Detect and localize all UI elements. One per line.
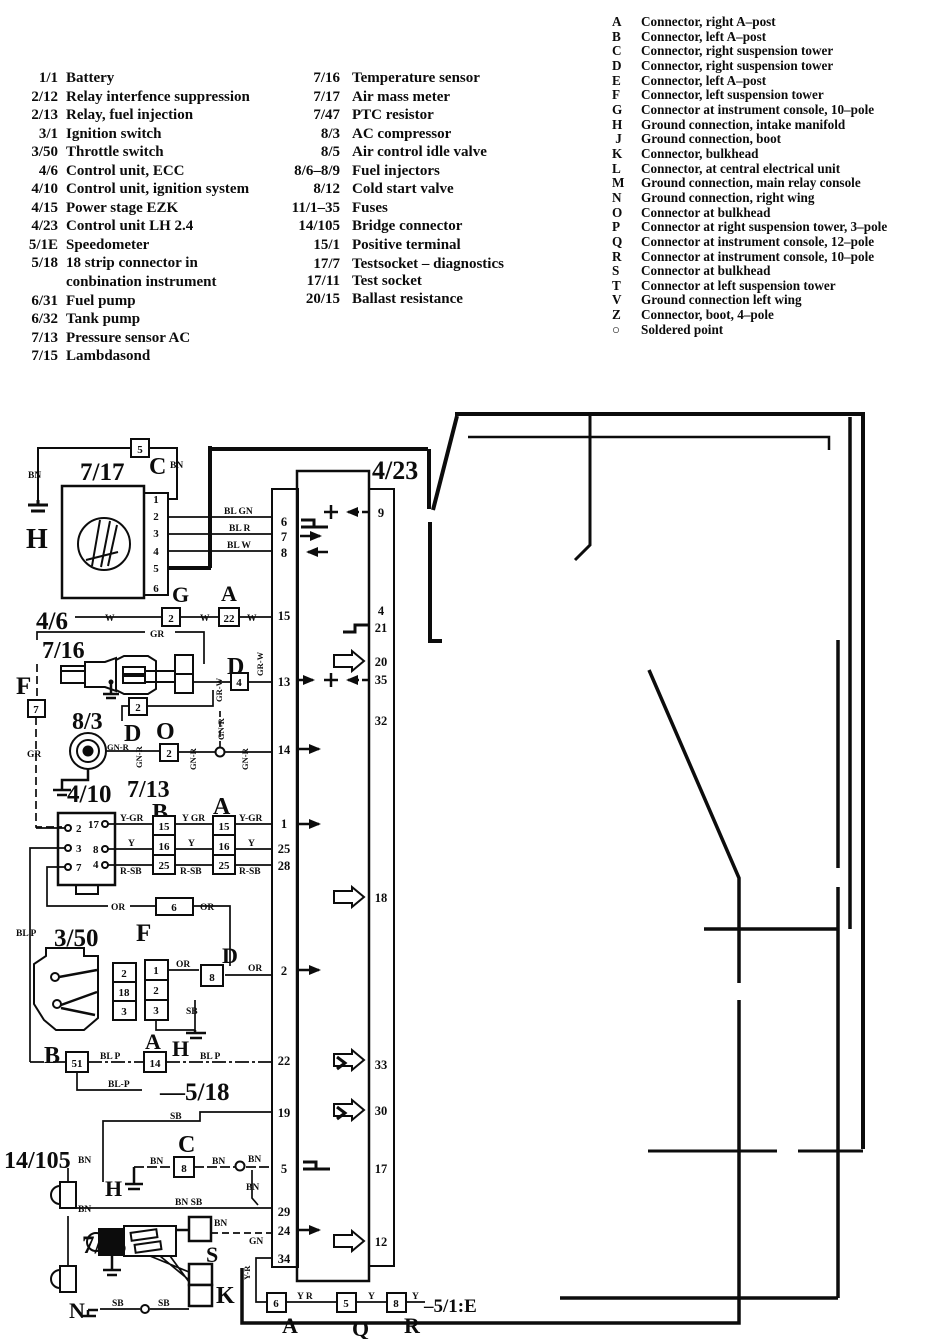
svg-text:OR: OR <box>111 903 125 913</box>
svg-text:4/6: 4/6 <box>36 608 68 635</box>
svg-text:2: 2 <box>281 964 287 978</box>
ground H row <box>125 1167 143 1189</box>
control unit 4/23 main box <box>297 471 369 1281</box>
svg-text:6: 6 <box>273 1298 279 1310</box>
bridge connector 14/105 upper <box>51 1182 76 1208</box>
svg-text:OR: OR <box>176 960 190 970</box>
svg-text:Y-R: Y-R <box>242 1265 252 1280</box>
svg-text:A: A <box>221 581 237 606</box>
svg-text:BL R: BL R <box>229 524 251 534</box>
7/16 right connector boxes <box>175 655 193 674</box>
svg-text:Y-GR: Y-GR <box>120 814 144 824</box>
svg-text:Y: Y <box>412 1292 419 1302</box>
ground under 7/15 <box>103 1256 121 1275</box>
svg-text:Y: Y <box>128 839 135 849</box>
wires 4/10 left pins <box>30 828 108 1062</box>
svg-text:N: N <box>69 1298 85 1323</box>
svg-text:C: C <box>178 1132 195 1158</box>
hollow arrow pin33 <box>334 1050 364 1070</box>
legend middle column names <box>352 69 487 254</box>
svg-text:BN: BN <box>214 1219 227 1229</box>
3/50 pin column 2 <box>145 960 168 1020</box>
svg-text:2: 2 <box>76 823 82 835</box>
svg-text:6: 6 <box>171 902 177 914</box>
wire BL-Y vertical to A9 <box>430 522 442 641</box>
wire BL-Y relay drop <box>575 414 590 560</box>
svg-text:24: 24 <box>278 1224 291 1238</box>
svg-text:4/23: 4/23 <box>372 456 418 485</box>
svg-text:30: 30 <box>375 1104 388 1118</box>
wire BL-P to 5/18 <box>77 1072 142 1090</box>
svg-text:29: 29 <box>278 1205 291 1219</box>
svg-text:GR-W: GR-W <box>255 651 265 676</box>
svg-text:8: 8 <box>209 972 215 984</box>
svg-text:2: 2 <box>168 613 174 625</box>
svg-text:OR: OR <box>200 903 214 913</box>
wire 7/15 to S <box>176 1229 189 1232</box>
legend middle column numbers <box>280 69 340 254</box>
svg-text:7: 7 <box>33 704 39 716</box>
svg-text:Q: Q <box>352 1316 369 1339</box>
svg-text:SB: SB <box>158 1299 170 1309</box>
arrow right pin14 <box>299 748 319 751</box>
S box <box>189 1217 211 1241</box>
soldered point <box>216 748 225 757</box>
legend right column names <box>641 15 887 337</box>
svg-text:F: F <box>16 673 31 700</box>
connector A box 14 <box>144 1052 166 1072</box>
arrow left pin8 <box>308 551 328 554</box>
svg-text:BL P: BL P <box>100 1052 121 1062</box>
arrow plus pin35 <box>299 673 368 687</box>
svg-text:14/105: 14/105 <box>4 1148 71 1174</box>
svg-text:8: 8 <box>181 1163 187 1175</box>
svg-text:GN-R: GN-R <box>134 745 144 768</box>
svg-text:Y R: Y R <box>297 1292 313 1302</box>
wire SB + ground H under 3/50 <box>156 1000 195 1030</box>
wire BL-Y top trunk <box>210 414 863 1149</box>
connector B box 51 <box>66 1052 88 1072</box>
lambda sensor 7/15 <box>87 1233 105 1251</box>
svg-text:Y: Y <box>368 1292 375 1302</box>
svg-text:8/3: 8/3 <box>72 709 103 735</box>
legend left column names <box>66 69 250 366</box>
svg-text:6: 6 <box>153 583 159 595</box>
svg-text:22: 22 <box>224 613 236 625</box>
pressure sensor 4/10 box <box>58 813 115 885</box>
wire BL-W pin4 <box>168 550 272 552</box>
bottom connector row boxes <box>267 1293 286 1312</box>
svg-text:GN: GN <box>249 1237 263 1247</box>
wire rows 4/10 to pins <box>108 824 272 865</box>
ac compressor 8/3 <box>70 733 106 769</box>
svg-text:1: 1 <box>153 494 159 506</box>
svg-text:2: 2 <box>135 702 141 714</box>
wire P long diagonal <box>242 670 739 1323</box>
ground under 8/3 <box>53 769 88 795</box>
connector D box 8 <box>201 965 223 986</box>
wire labels Y-GR rows <box>120 814 263 877</box>
svg-text:Y GR: Y GR <box>182 814 205 824</box>
svg-text:H: H <box>26 524 48 555</box>
svg-text:7/17: 7/17 <box>80 459 124 486</box>
wire C5 right to 7/17 pin1 <box>149 448 177 499</box>
svg-text:OR: OR <box>248 964 262 974</box>
svg-text:BN: BN <box>248 1155 261 1165</box>
hollow arrow pin20 <box>334 651 364 671</box>
svg-text:13: 13 <box>278 675 291 689</box>
wire C5 left to ground H <box>38 448 131 500</box>
svg-text:BN: BN <box>150 1157 163 1167</box>
svg-text:5: 5 <box>153 563 159 575</box>
svg-text:14: 14 <box>278 743 291 757</box>
wires 7/15 to K <box>150 1256 192 1286</box>
svg-text:51: 51 <box>72 1058 83 1070</box>
svg-text:SB: SB <box>186 1007 198 1017</box>
svg-text:9: 9 <box>378 506 384 520</box>
svg-text:8: 8 <box>393 1298 399 1310</box>
svg-text:19: 19 <box>278 1106 291 1120</box>
svg-text:–5/1:E: –5/1:E <box>423 1296 477 1317</box>
svg-text:R-SB: R-SB <box>180 867 202 877</box>
svg-text:3: 3 <box>153 1005 159 1017</box>
svg-text:15: 15 <box>159 821 171 833</box>
wire pin5 to BL-Y <box>168 566 211 570</box>
svg-text:BL P: BL P <box>200 1052 221 1062</box>
connector C box 5 <box>131 439 149 457</box>
svg-text:GR: GR <box>27 750 41 760</box>
svg-text:D: D <box>222 943 238 968</box>
svg-text:K: K <box>216 1283 235 1309</box>
arrow plus pin9 <box>324 505 368 519</box>
svg-text:25: 25 <box>159 860 171 872</box>
svg-text:D: D <box>124 721 141 747</box>
svg-text:BN SB: BN SB <box>175 1198 203 1208</box>
svg-text:5: 5 <box>281 1162 287 1176</box>
svg-text:GR-W: GR-W <box>214 677 224 702</box>
svg-text:5: 5 <box>343 1298 349 1310</box>
connector A box 22 <box>219 608 239 626</box>
svg-text:BL P: BL P <box>16 929 37 939</box>
wire BL-P row to pin22 <box>30 1061 272 1063</box>
svg-text:BL W: BL W <box>227 541 251 551</box>
svg-text:GN-R: GN-R <box>216 717 226 740</box>
svg-text:BN: BN <box>212 1157 225 1167</box>
svg-text:BL GN: BL GN <box>224 507 253 517</box>
svg-text:O: O <box>156 719 175 745</box>
svg-text:15: 15 <box>278 609 291 623</box>
step symbol pin6 <box>301 520 328 527</box>
wire 7/16 to D4 to pin13 <box>193 681 272 683</box>
svg-text:BL-P: BL-P <box>108 1080 130 1090</box>
svg-text:A: A <box>145 1029 161 1054</box>
svg-text:3: 3 <box>76 843 82 855</box>
wire Y-BN trunk <box>468 437 829 450</box>
wire SB soldered SB <box>100 1308 189 1310</box>
svg-text:17: 17 <box>88 819 100 831</box>
svg-text:4: 4 <box>378 604 385 618</box>
svg-text:8: 8 <box>281 546 287 560</box>
svg-text:5: 5 <box>137 444 143 456</box>
wire 4/6 row <box>75 616 272 618</box>
wire pin34 down to bottom row <box>256 1258 272 1302</box>
air mass meter 7/17 box <box>62 486 144 598</box>
svg-text:SB: SB <box>112 1299 124 1309</box>
wire OR to D8 <box>168 970 272 975</box>
svg-text:12: 12 <box>375 1235 388 1249</box>
arrow right pin24 <box>299 1229 319 1232</box>
svg-text:—5/18: —5/18 <box>159 1079 229 1106</box>
svg-text:SB: SB <box>170 1112 182 1122</box>
svg-text:Y: Y <box>248 839 255 849</box>
control unit 4/23 right pin strip <box>369 489 394 1266</box>
wire BN-SB row to pin29 <box>76 1207 272 1209</box>
hollow arrow pin18 <box>334 887 364 907</box>
connector D box 4 <box>231 673 248 690</box>
svg-text:15: 15 <box>219 821 231 833</box>
svg-text:16: 16 <box>219 841 231 853</box>
connector O box 2 <box>160 744 178 761</box>
ground H intake manifold <box>28 500 48 511</box>
svg-text:7/16: 7/16 <box>42 638 85 664</box>
arrow right pin1 <box>299 823 319 826</box>
svg-text:4: 4 <box>93 859 99 871</box>
svg-text:22: 22 <box>278 1054 291 1068</box>
K connector boxes <box>189 1264 212 1285</box>
3/50 pin column 1 <box>113 963 136 1020</box>
svg-text:21: 21 <box>375 621 388 635</box>
wire S dashed GN to pin24 <box>211 1232 272 1234</box>
svg-text:2: 2 <box>153 511 159 523</box>
wire GR bracket 7/16 <box>37 632 204 664</box>
svg-text:6: 6 <box>281 515 287 529</box>
svg-text:G: G <box>172 582 189 607</box>
wire BN row to pin5 <box>134 1166 272 1168</box>
step symbol pin21 <box>343 625 368 632</box>
arrow right pin7 <box>300 535 320 538</box>
wire OR row <box>130 906 230 966</box>
svg-text:3: 3 <box>121 1006 127 1018</box>
legend left column numbers <box>0 69 58 366</box>
svg-text:18: 18 <box>375 891 388 905</box>
svg-text:R-SB: R-SB <box>120 867 142 877</box>
wire BL bottom to 8/5 <box>560 1296 838 1300</box>
svg-text:GR: GR <box>150 630 164 640</box>
hollow arrow pin12 <box>334 1231 364 1251</box>
svg-text:1: 1 <box>153 965 159 977</box>
svg-text:BN: BN <box>78 1156 91 1166</box>
throttle switch 3/50 body <box>34 948 98 1030</box>
svg-text:16: 16 <box>159 841 171 853</box>
svg-text:4/10: 4/10 <box>67 781 111 808</box>
wire BL-Y bottom row y=1151 <box>648 1150 863 1153</box>
connector F box 7 <box>28 700 45 717</box>
svg-text:25: 25 <box>219 860 231 872</box>
svg-text:GN-R: GN-R <box>188 747 198 770</box>
wire 14/105 links <box>67 1168 69 1266</box>
right pin numbers <box>375 506 388 1249</box>
svg-text:A: A <box>282 1313 298 1338</box>
svg-text:GN-R: GN-R <box>240 747 250 770</box>
svg-text:14: 14 <box>150 1058 162 1070</box>
svg-text:28: 28 <box>278 859 291 873</box>
svg-text:32: 32 <box>375 714 388 728</box>
svg-text:35: 35 <box>375 673 388 687</box>
svg-text:BN: BN <box>78 1205 91 1215</box>
wire BL-R pin3 <box>168 533 272 535</box>
svg-text:20: 20 <box>375 655 388 669</box>
svg-text:Y: Y <box>188 839 195 849</box>
svg-text:W: W <box>247 614 257 624</box>
svg-text:H: H <box>172 1036 189 1061</box>
svg-text:Y-GR: Y-GR <box>239 814 263 824</box>
bridge connector 14/105 lower <box>51 1266 76 1292</box>
svg-text:8: 8 <box>93 844 99 856</box>
wire BL right bus <box>704 417 850 1298</box>
svg-text:W: W <box>200 614 210 624</box>
svg-text:7: 7 <box>281 530 287 544</box>
svg-text:C: C <box>149 454 166 480</box>
connector G box 2 <box>162 608 180 626</box>
svg-text:H: H <box>105 1176 122 1201</box>
svg-text:2: 2 <box>121 968 127 980</box>
svg-text:BN: BN <box>28 471 41 481</box>
svg-text:18: 18 <box>119 987 131 999</box>
svg-text:4: 4 <box>236 677 242 689</box>
arrow right pin2 <box>299 969 319 972</box>
svg-text:33: 33 <box>375 1058 388 1072</box>
svg-text:4: 4 <box>153 546 159 558</box>
ground under 7/16 <box>103 682 119 698</box>
control unit 4/23 left pin strip <box>272 489 298 1267</box>
svg-text:3: 3 <box>153 528 159 540</box>
svg-text:34: 34 <box>278 1252 291 1266</box>
svg-text:W: W <box>105 614 115 624</box>
connector box 2 upper <box>129 698 147 715</box>
wire BL-Y left drop to 7/17 pin5 <box>208 446 212 568</box>
svg-text:2: 2 <box>166 748 172 760</box>
legend right column letters <box>612 15 624 337</box>
svg-text:B: B <box>44 1043 60 1069</box>
temperature sensor 7/16 <box>61 666 85 683</box>
svg-text:F: F <box>136 920 151 947</box>
svg-text:2: 2 <box>153 985 159 997</box>
step symbol pin5 <box>303 1162 330 1169</box>
svg-text:7: 7 <box>76 862 82 874</box>
wire SB row to pin19 <box>103 1112 272 1182</box>
hollow arrow pin30 <box>334 1100 364 1120</box>
wire box2 elbow <box>122 690 213 721</box>
wire F vertical <box>36 664 62 827</box>
wire BL-GN pin2 <box>168 516 272 518</box>
7/17 pin strip <box>144 493 168 595</box>
air mass meter vane circle <box>78 518 130 570</box>
svg-text:17: 17 <box>375 1162 388 1176</box>
wire 8/3 to O2 to junction to pin14 <box>106 751 272 752</box>
svg-text:1: 1 <box>281 817 287 831</box>
connector F box 6 <box>156 898 193 915</box>
left pin numbers <box>278 515 291 1266</box>
svg-text:R: R <box>404 1313 421 1338</box>
svg-text:R-SB: R-SB <box>239 867 261 877</box>
svg-text:25: 25 <box>278 842 291 856</box>
